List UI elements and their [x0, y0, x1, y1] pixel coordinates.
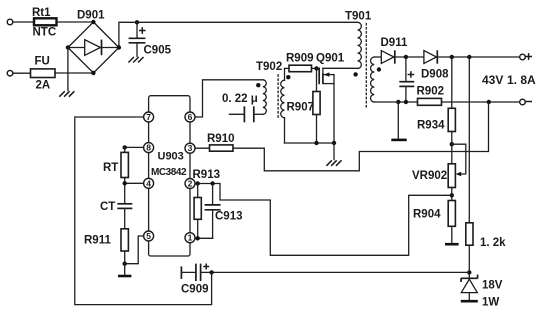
capacitor C905 — [129, 22, 172, 56]
diode D908 — [421, 50, 449, 80]
svg-text:1W: 1W — [482, 297, 499, 309]
resistor R904 — [413, 201, 455, 244]
svg-text:5: 5 — [146, 231, 151, 241]
capacitor CT — [100, 201, 132, 229]
capacitor C913 — [205, 184, 243, 239]
capacitor C909 — [181, 264, 212, 296]
input terminal L (bottom) — [7, 70, 13, 76]
output terminal + — [520, 53, 532, 60]
capacitor (output filter, +) — [399, 57, 414, 102]
wire — [67, 48, 69, 91]
svg-text:D908: D908 — [421, 69, 449, 81]
svg-text:R902: R902 — [417, 86, 445, 98]
node: source/ground — [332, 141, 336, 145]
wire pin 4 — [125, 182, 144, 184]
pin 4 — [144, 178, 154, 188]
svg-text:T901: T901 — [345, 11, 372, 23]
svg-text:RT: RT — [103, 162, 118, 174]
svg-text:R911: R911 — [84, 235, 111, 247]
node: cap bottom — [404, 100, 408, 104]
diode D911 — [381, 37, 408, 64]
wire pin 2 / R913 C913 top — [196, 181, 215, 185]
node: bridge bottom corner — [91, 71, 95, 75]
svg-text:3: 3 — [188, 143, 193, 153]
svg-text:C913: C913 — [215, 211, 243, 223]
wire (VCC supply line) — [212, 271, 470, 273]
bridge rectifier D901 — [68, 10, 119, 74]
svg-text:2A: 2A — [36, 80, 51, 92]
svg-text:1. 2k: 1. 2k — [480, 237, 506, 249]
resistor R907 — [287, 68, 321, 143]
ground (bar) — [118, 275, 131, 278]
node: secondary return ground — [396, 100, 400, 104]
wire — [333, 143, 335, 160]
potentiometer VR902 — [412, 144, 466, 187]
pin 7 — [144, 112, 154, 122]
svg-text:R913: R913 — [193, 169, 221, 181]
svg-text:1. 8A: 1. 8A — [507, 73, 536, 87]
wire (feedback to pin 2) — [195, 184, 452, 256]
svg-text:C905: C905 — [144, 45, 172, 57]
node: R911 bottom — [123, 262, 127, 266]
svg-text:MC3842: MC3842 — [151, 167, 187, 178]
node: R934 feed — [450, 55, 454, 59]
wire — [13, 72, 31, 74]
svg-text:NTC: NTC — [33, 27, 57, 39]
svg-text:C909: C909 — [181, 284, 209, 296]
svg-text:43V: 43V — [482, 73, 503, 87]
zener diode 18V 1W — [461, 275, 503, 309]
output terminal - — [520, 99, 532, 105]
wire — [55, 72, 93, 74]
node: VR902/R904 junction — [450, 193, 454, 197]
resistor R913 — [193, 169, 221, 238]
wire (R910 to minus rail) — [233, 102, 489, 171]
node: pin1/R913 — [196, 236, 200, 240]
node: R907 bottom — [314, 141, 318, 145]
pin 1 — [185, 233, 195, 243]
node: bridge right corner — [117, 45, 121, 49]
svg-text:Q901: Q901 — [316, 53, 345, 65]
wire — [57, 21, 94, 23]
capacitor 0.22u — [222, 93, 263, 122]
wire — [374, 56, 381, 58]
wire — [451, 188, 453, 201]
svg-text:R934: R934 — [417, 120, 445, 132]
svg-text:1: 1 — [188, 233, 193, 243]
svg-text:D911: D911 — [381, 37, 408, 49]
IC U903 MC3842 — [149, 96, 190, 256]
text 43V 1.8A — [482, 73, 536, 87]
svg-text:4: 4 — [146, 178, 151, 188]
pin 5 — [144, 231, 154, 241]
resistor R909 — [285, 53, 320, 81]
svg-text:R907: R907 — [287, 102, 315, 114]
svg-text:R909: R909 — [286, 53, 314, 65]
resistor R910 — [207, 133, 235, 151]
svg-text:D901: D901 — [77, 10, 105, 22]
svg-text:0. 22 μ: 0. 22 μ — [222, 93, 258, 105]
node: D911 cathode junction — [404, 55, 408, 59]
svg-text:7: 7 — [146, 112, 151, 122]
wire (pin7 VCC loop box) — [75, 117, 212, 305]
svg-text:U903: U903 — [158, 151, 184, 163]
wire — [437, 56, 519, 58]
pin 8 — [144, 143, 154, 153]
ground — [326, 160, 341, 166]
resistor Rt1 — [32, 7, 57, 39]
ground (bar) — [391, 139, 406, 142]
wire pin 5 — [125, 236, 144, 264]
wire pin 3 — [195, 147, 210, 149]
node: bridge top corner — [91, 20, 95, 24]
wire (source rail) — [285, 142, 335, 144]
transformer T901 — [323, 11, 381, 110]
ground — [128, 57, 143, 63]
node: 1.2k feed — [467, 55, 471, 59]
wire pin 1 — [195, 237, 213, 239]
node: divider tap — [450, 142, 454, 146]
wire — [397, 102, 399, 139]
wire (secondary return) — [374, 101, 417, 103]
ground — [59, 91, 74, 97]
wire (HV rail from bridge + corner) — [119, 22, 358, 47]
node: zener node — [467, 270, 471, 274]
wire pin 8 — [125, 146, 144, 148]
svg-text:CT: CT — [100, 201, 115, 213]
resistor 1.2k — [466, 57, 506, 278]
svg-text:VR902: VR902 — [412, 170, 447, 182]
ground (bar) — [445, 243, 459, 246]
wire — [442, 101, 520, 103]
wire — [395, 56, 424, 58]
svg-text:FU: FU — [35, 56, 50, 68]
node: minus rail junction — [487, 100, 491, 104]
resistor R911 — [84, 229, 128, 275]
svg-text:6: 6 — [188, 112, 193, 122]
resistor RT — [103, 147, 128, 203]
pin 2 — [185, 179, 195, 189]
pin 6 — [185, 112, 195, 122]
wire — [13, 21, 34, 23]
resistor R902 — [417, 86, 445, 106]
transistor Q901 (MOSFET) — [316, 53, 345, 144]
svg-text:Rt1: Rt1 — [32, 7, 51, 19]
node: RT/CT junction — [123, 181, 127, 185]
wire pin 6 to T902 — [195, 80, 263, 117]
svg-text:R904: R904 — [413, 209, 441, 221]
node: bridge left corner — [66, 45, 70, 49]
node: RT top — [123, 145, 127, 149]
resistor R934 — [417, 57, 455, 164]
node A (HV rail / C905) — [135, 20, 139, 24]
node: C909 junction — [209, 270, 213, 274]
svg-text:8: 8 — [146, 143, 151, 153]
input terminal L (top) — [7, 19, 13, 25]
svg-text:R910: R910 — [207, 133, 235, 145]
transformer T902 — [256, 61, 290, 143]
svg-text:T902: T902 — [256, 61, 282, 73]
fuse FU 2A — [31, 56, 56, 92]
svg-text:18V: 18V — [482, 280, 503, 292]
pin 3 — [185, 143, 195, 153]
node: gate node — [314, 66, 318, 70]
